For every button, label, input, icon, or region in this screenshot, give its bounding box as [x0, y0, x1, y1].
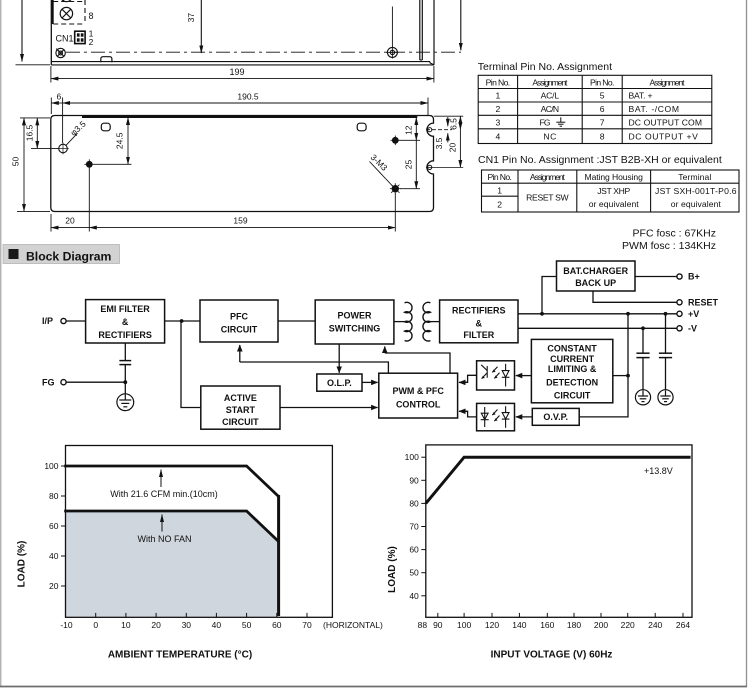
svg-text:40: 40 — [49, 551, 59, 561]
svg-text:CONSTANT: CONSTANT — [547, 344, 597, 354]
wire I/P to EMI — [66, 320, 85, 322]
leader phi 3.5 — [66, 133, 78, 145]
svg-text:JST SXH-001T-P0.6: JST SXH-001T-P0.6 — [655, 186, 737, 196]
table 2 grid — [482, 170, 740, 212]
page border left — [0, 0, 2, 687]
terminal block dashed outline — [53, 0, 85, 24]
svg-text:RECTIFIERS: RECTIFIERS — [98, 330, 152, 340]
svg-text:60: 60 — [409, 545, 419, 555]
wire +V branch down to OVP — [579, 314, 628, 417]
box ACTIVE START CIRCUIT — [201, 386, 280, 429]
svg-text:-V: -V — [688, 324, 697, 334]
vertical lead to right screw — [391, 7, 393, 47]
wire PFC feedback (bottom arrow up) — [239, 345, 241, 362]
svg-text:AMBIENT TEMPERATURE (°C): AMBIENT TEMPERATURE (°C) — [108, 650, 252, 661]
node +V to C2 — [664, 312, 668, 316]
svg-text:140: 140 — [512, 620, 526, 630]
svg-text:20: 20 — [65, 216, 75, 226]
svg-text:6: 6 — [600, 104, 605, 114]
svg-text:100: 100 — [457, 620, 471, 630]
x labels left chart — [60, 620, 312, 630]
dim 25 line — [415, 140, 417, 188]
box CONSTANT CURRENT LIMITING & DETECTION CIRCUIT — [531, 339, 612, 402]
svg-text:8: 8 — [89, 11, 94, 21]
box optocoupler U2 — [477, 403, 515, 430]
dim 24.5 line — [127, 118, 129, 165]
svg-text:50: 50 — [11, 157, 21, 167]
svg-text:6: 6 — [57, 92, 62, 102]
terminal I/P — [61, 318, 66, 323]
dimension 199 extension right — [433, 66, 435, 83]
table 1 text — [486, 77, 685, 141]
dimension 190.5 line — [63, 102, 428, 104]
svg-text:0: 0 — [93, 620, 98, 630]
opto U1 LED — [505, 364, 507, 371]
dim 20 right line — [459, 130, 461, 168]
svg-text:POWER: POWER — [337, 311, 372, 321]
ground symbol FG — [117, 394, 134, 411]
svg-text:Terminal: Terminal — [678, 172, 711, 182]
right dimension line to centerline — [460, 0, 462, 50]
ext 159 right through screw3 — [394, 194, 396, 232]
extension hole center — [62, 98, 64, 144]
case left edge — [50, 0, 52, 65]
FG earth symbol in table — [556, 117, 565, 126]
y ticks left chart — [61, 466, 66, 586]
opto U2 LED — [505, 406, 507, 412]
svg-text:70: 70 — [302, 620, 312, 630]
ext case bottom left — [17, 210, 50, 212]
y ticks right chart — [421, 457, 426, 596]
box PWM & PFC CONTROL — [379, 373, 458, 418]
input voltage curve — [426, 457, 691, 503]
extension 190.5 right — [427, 98, 429, 116]
svg-text:ACTIVE: ACTIVE — [224, 393, 257, 403]
svg-text:B+: B+ — [688, 272, 700, 282]
svg-text:240: 240 — [648, 620, 662, 630]
wire PSW to transformer — [394, 321, 405, 323]
svg-text:20: 20 — [448, 143, 458, 153]
svg-text:159: 159 — [233, 216, 247, 226]
leader 3-M3 — [370, 162, 394, 187]
wire capacitor to ground — [124, 365, 126, 394]
x ticks right chart — [438, 613, 683, 617]
capacitor C1 from -V rail — [642, 328, 644, 353]
svg-text:With NO FAN: With NO FAN — [137, 534, 191, 544]
center dash-dot line — [66, 51, 461, 53]
svg-text:EMI FILTER: EMI FILTER — [100, 304, 150, 314]
box POWER SWITCHING — [315, 300, 394, 344]
svg-text:LOAD (%): LOAD (%) — [17, 541, 28, 588]
svg-text:CIRCUIT: CIRCUIT — [221, 324, 258, 334]
opto U2 internals: photo thyristor — [481, 406, 510, 428]
svg-text:120: 120 — [485, 620, 499, 630]
svg-text:264: 264 — [676, 620, 690, 630]
svg-text:3: 3 — [496, 117, 501, 127]
svg-text:5: 5 — [600, 91, 605, 101]
dimension 6 line — [51, 102, 62, 104]
svg-text:RESET: RESET — [688, 298, 719, 308]
svg-text:O.V.P.: O.V.P. — [543, 412, 568, 422]
box RECTIFIERS & FILTER — [440, 300, 518, 343]
svg-text:BACK UP: BACK UP — [575, 278, 616, 288]
opto U2 light arrows — [492, 410, 497, 416]
svg-text:BAT. -/COM: BAT. -/COM — [629, 104, 680, 114]
svg-text:RESET SW: RESET SW — [526, 193, 569, 203]
svg-text:DC OUTPUT +V: DC OUTPUT +V — [629, 132, 699, 142]
svg-text:1: 1 — [497, 185, 502, 195]
ground symbol C2 — [658, 390, 673, 405]
box O.V.P. — [532, 408, 579, 425]
ext screw1 — [94, 163, 132, 165]
notch hole 2 — [428, 165, 432, 169]
ext top right corner — [434, 115, 463, 117]
junction dots — [123, 312, 667, 384]
fan derating curve — [64, 466, 278, 497]
svg-text:DETECTION: DETECTION — [546, 378, 598, 388]
ext top shared — [20, 117, 50, 119]
capacitor C2 from +V rail — [665, 314, 667, 353]
ext hole left — [31, 147, 58, 149]
ground symbol C1 — [635, 390, 650, 405]
wire transformer to RECTIFIERS — [430, 321, 439, 323]
svg-text:60: 60 — [49, 521, 59, 531]
terminal +V — [677, 311, 682, 316]
right chart: input voltage — [387, 445, 692, 661]
mounting clip hook — [101, 57, 112, 63]
extension 6 left — [50, 98, 52, 115]
svg-text:Pin No.: Pin No. — [486, 77, 511, 87]
svg-text:90: 90 — [409, 475, 419, 485]
svg-text:Assignment: Assignment — [532, 77, 568, 87]
svg-text:24.5: 24.5 — [115, 132, 125, 149]
node detection branch — [626, 374, 630, 378]
dim 20 extension left — [50, 214, 52, 232]
svg-text:200: 200 — [594, 620, 608, 630]
svg-text:Pin No.: Pin No. — [590, 77, 615, 87]
svg-text:(HORIZONTAL): (HORIZONTAL) — [323, 620, 383, 630]
screw2 right top — [391, 136, 401, 146]
svg-text:88: 88 — [418, 620, 428, 630]
chassis screw left — [56, 48, 65, 57]
svg-text:SWITCHING: SWITCHING — [329, 324, 381, 334]
screw3 right bottom — [390, 183, 401, 194]
ext screw2 — [400, 139, 421, 141]
opto U1 internals: phototransistor — [481, 364, 509, 387]
svg-text:30: 30 — [182, 620, 192, 630]
wire ACTIVE START to PWM arrow right — [280, 407, 378, 409]
svg-text:FG: FG — [540, 117, 551, 127]
svg-text:4: 4 — [496, 132, 501, 142]
wire PFC to POWER SWITCHING — [278, 320, 315, 322]
svg-text:Mating Housing: Mating Housing — [585, 172, 644, 182]
dim 20 extension right through screw1 — [88, 169, 90, 232]
svg-text:AC/L: AC/L — [541, 91, 560, 101]
svg-text:or equivalent: or equivalent — [589, 199, 640, 209]
node +V to detection — [626, 312, 630, 316]
svg-text:7: 7 — [600, 117, 605, 127]
svg-text:PWM fosc : 134KHz: PWM fosc : 134KHz — [622, 240, 716, 252]
x ticks left chart — [96, 613, 307, 617]
svg-text:40: 40 — [409, 591, 419, 601]
svg-text:PFC fosc : 67KHz: PFC fosc : 67KHz — [633, 228, 716, 240]
vertical drop at 60C — [277, 495, 280, 616]
svg-text:12: 12 — [403, 125, 413, 135]
left height dimension line — [21, 0, 23, 62]
svg-text:CN1 Pin No. Assignment :JST B: CN1 Pin No. Assignment :JST B2B-XH or eq… — [478, 154, 722, 166]
plot frame — [66, 446, 333, 618]
chassis screw right — [386, 46, 398, 58]
svg-text:INPUT VOLTAGE (V) 60Hz: INPUT VOLTAGE (V) 60Hz — [491, 650, 613, 661]
wire POWER SWITCHING to O.L.P. arrow down — [338, 344, 340, 373]
dim 12 line — [415, 118, 417, 141]
slot left — [101, 123, 110, 131]
terminal FG — [61, 380, 66, 385]
svg-text:JST XHP: JST XHP — [597, 186, 630, 196]
svg-text:100: 100 — [405, 452, 419, 462]
node EMI-PFC junction — [180, 319, 184, 323]
case bottom line inner — [51, 61, 430, 63]
wire opto2 to PWM arrow left — [460, 411, 476, 417]
dim 16.5 line — [36, 118, 38, 148]
box PFC CIRCUIT — [200, 300, 278, 342]
-V rail wire — [518, 327, 677, 329]
wire OLP to PWM arrow right — [362, 381, 378, 383]
dimension 37 line — [200, 0, 202, 53]
table 2 text — [487, 172, 736, 209]
svg-text:CONTROL: CONTROL — [396, 399, 441, 409]
svg-text:2: 2 — [89, 37, 94, 47]
svg-text:100: 100 — [44, 461, 58, 471]
page border bottom — [0, 686, 747, 688]
svg-text:2: 2 — [496, 104, 501, 114]
svg-text:160: 160 — [540, 620, 554, 630]
wire power switching drive arrow up — [384, 347, 386, 354]
wire EMI bottom to capacitor — [124, 343, 126, 360]
svg-text:40: 40 — [212, 620, 222, 630]
svg-text:FG: FG — [42, 377, 55, 387]
wire B+ — [635, 276, 677, 278]
svg-text:&: & — [476, 319, 483, 329]
no-fan derating curve — [64, 511, 278, 542]
svg-text:Assignment: Assignment — [650, 77, 686, 87]
svg-text:199: 199 — [229, 67, 244, 77]
svg-text:NC: NC — [543, 132, 556, 142]
dim 50 line — [23, 118, 25, 211]
svg-text:BAT. +: BAT. + — [629, 91, 653, 101]
y labels right chart — [405, 452, 419, 601]
svg-text:PFC: PFC — [230, 311, 249, 321]
partial upper terminal screw — [60, 0, 72, 2]
transformer T1 primary — [405, 302, 412, 341]
capacitor plates — [119, 360, 131, 362]
svg-text:220: 220 — [621, 620, 635, 630]
node FG-capacitor junction — [123, 380, 127, 384]
wire junction to ACTIVE START — [181, 321, 201, 408]
svg-text:80: 80 — [49, 491, 59, 501]
svg-text:50: 50 — [409, 568, 419, 578]
svg-text:Terminal Pin No. Assignment: Terminal Pin No. Assignment — [478, 61, 612, 73]
box optocoupler U1 — [477, 361, 515, 390]
svg-text:80: 80 — [409, 498, 419, 508]
ext screw3 — [400, 188, 420, 190]
svg-text:90: 90 — [433, 620, 443, 630]
svg-text:Assignment: Assignment — [530, 172, 566, 182]
svg-text:CIRCUIT: CIRCUIT — [222, 417, 259, 427]
dim 159 line — [89, 227, 395, 229]
svg-text:LOAD (%): LOAD (%) — [387, 546, 398, 593]
opto U1 light arrows — [492, 367, 497, 373]
svg-text:With 21.6 CFM min.(10cm): With 21.6 CFM min.(10cm) — [110, 489, 218, 499]
case bottom line outer — [51, 64, 434, 66]
svg-text:20: 20 — [151, 620, 161, 630]
svg-text:+V: +V — [688, 309, 699, 319]
svg-text:CIRCUIT: CIRCUIT — [554, 390, 591, 400]
dimension 199 extension left — [50, 66, 52, 83]
svg-text:25: 25 — [403, 160, 413, 170]
svg-text:Pin No.: Pin No. — [487, 172, 512, 182]
terminal B+ — [677, 274, 682, 279]
svg-text:&: & — [122, 317, 129, 327]
svg-text:CURRENT: CURRENT — [550, 354, 595, 364]
svg-text:50: 50 — [242, 620, 252, 630]
screw1 bottom-left — [84, 159, 94, 169]
wire branch to constant current box — [613, 375, 628, 377]
dim 20 line — [51, 227, 89, 229]
plot frame — [426, 445, 692, 617]
notch hole 1 centerline — [426, 129, 452, 131]
page border right — [746, 0, 748, 687]
svg-text:70: 70 — [409, 522, 419, 532]
svg-text:3.5: 3.5 — [434, 137, 444, 149]
terminal -V — [677, 326, 682, 331]
svg-text:+13.8V: +13.8V — [644, 466, 673, 476]
svg-text:CN1: CN1 — [56, 34, 74, 44]
svg-text:190.5: 190.5 — [237, 92, 259, 102]
svg-text:20: 20 — [49, 581, 59, 591]
box BAT.CHARGER BACK UP — [557, 261, 636, 291]
wire opto1 to PWM arrow left — [460, 375, 476, 382]
svg-text:180: 180 — [567, 620, 581, 630]
notch hole 1 — [428, 128, 432, 132]
svg-text:DC OUTPUT COM: DC OUTPUT COM — [629, 117, 703, 127]
extension line case bottom left — [16, 64, 51, 66]
svg-text:10: 10 — [121, 620, 131, 630]
connector CN1 symbol — [75, 31, 85, 43]
svg-text:LIMITING &: LIMITING & — [548, 364, 597, 374]
wire OVP to opto2 arrow left — [516, 416, 533, 418]
annotation arrow fan — [160, 470, 162, 488]
terminal RESET — [677, 300, 682, 305]
table 1 grid — [478, 75, 712, 143]
+V rail wire — [518, 313, 677, 315]
terminal labels — [42, 272, 719, 388]
svg-text:-10: -10 — [60, 620, 73, 630]
svg-text:2: 2 — [497, 200, 502, 210]
wire EMI to PFC — [165, 320, 200, 322]
svg-text:16.5: 16.5 — [24, 124, 34, 141]
svg-text:BAT.CHARGER: BAT.CHARGER — [563, 266, 628, 276]
terminal block solid edge — [51, 0, 53, 24]
wire to BAT.CHARGER — [542, 277, 557, 314]
svg-text:or equivalent: or equivalent — [671, 199, 722, 209]
terminal screw symbol (circle-X) — [60, 7, 72, 19]
dimension 199 line — [51, 78, 434, 80]
svg-text:60: 60 — [272, 620, 282, 630]
svg-text:O.L.P.: O.L.P. — [327, 378, 352, 388]
case right wall outer — [433, 0, 435, 65]
x labels right chart — [418, 620, 691, 630]
wire RESET — [593, 291, 677, 302]
section header Block Diagram — [3, 245, 120, 264]
box EMI FILTER & RECTIFIERS — [86, 300, 165, 343]
wire FG — [66, 381, 125, 383]
dim 3.5 arrows — [447, 117, 449, 126]
svg-text:37: 37 — [186, 13, 196, 23]
svg-text:6.5: 6.5 — [449, 118, 459, 130]
hole 3.5 — [57, 143, 69, 155]
node +V to BAT — [540, 312, 544, 316]
case right wall inner pair — [419, 0, 421, 60]
svg-text:RECTIFIERS: RECTIFIERS — [452, 306, 506, 316]
case outline bottom view — [51, 116, 434, 212]
box O.L.P. — [317, 374, 362, 391]
svg-text:I/P: I/P — [42, 316, 53, 326]
annotation arrow no fan — [161, 515, 163, 532]
left chart: derating curve — [17, 446, 383, 661]
wire constant current to opto1 arrow left — [516, 375, 532, 377]
slot right — [357, 123, 366, 131]
svg-text:START: START — [226, 405, 256, 415]
svg-text:1: 1 — [496, 91, 501, 101]
case bottom step right — [430, 62, 434, 65]
shaded area under no-fan curve — [66, 511, 279, 617]
block labels — [98, 266, 628, 427]
svg-text:Block Diagram: Block Diagram — [26, 249, 112, 263]
transformer T1 secondary — [423, 302, 430, 341]
svg-text:PWM & PFC: PWM & PFC — [392, 386, 444, 396]
notch hole 2 centerline / ext — [426, 166, 463, 168]
svg-text:8: 8 — [600, 132, 605, 142]
svg-text:FILTER: FILTER — [463, 330, 494, 340]
dim 6.5 line — [459, 116, 461, 130]
node -V to C1 — [641, 326, 645, 330]
svg-text:AC/N: AC/N — [541, 104, 560, 114]
y labels left chart — [44, 461, 58, 591]
cover edge thick line — [82, 115, 417, 118]
